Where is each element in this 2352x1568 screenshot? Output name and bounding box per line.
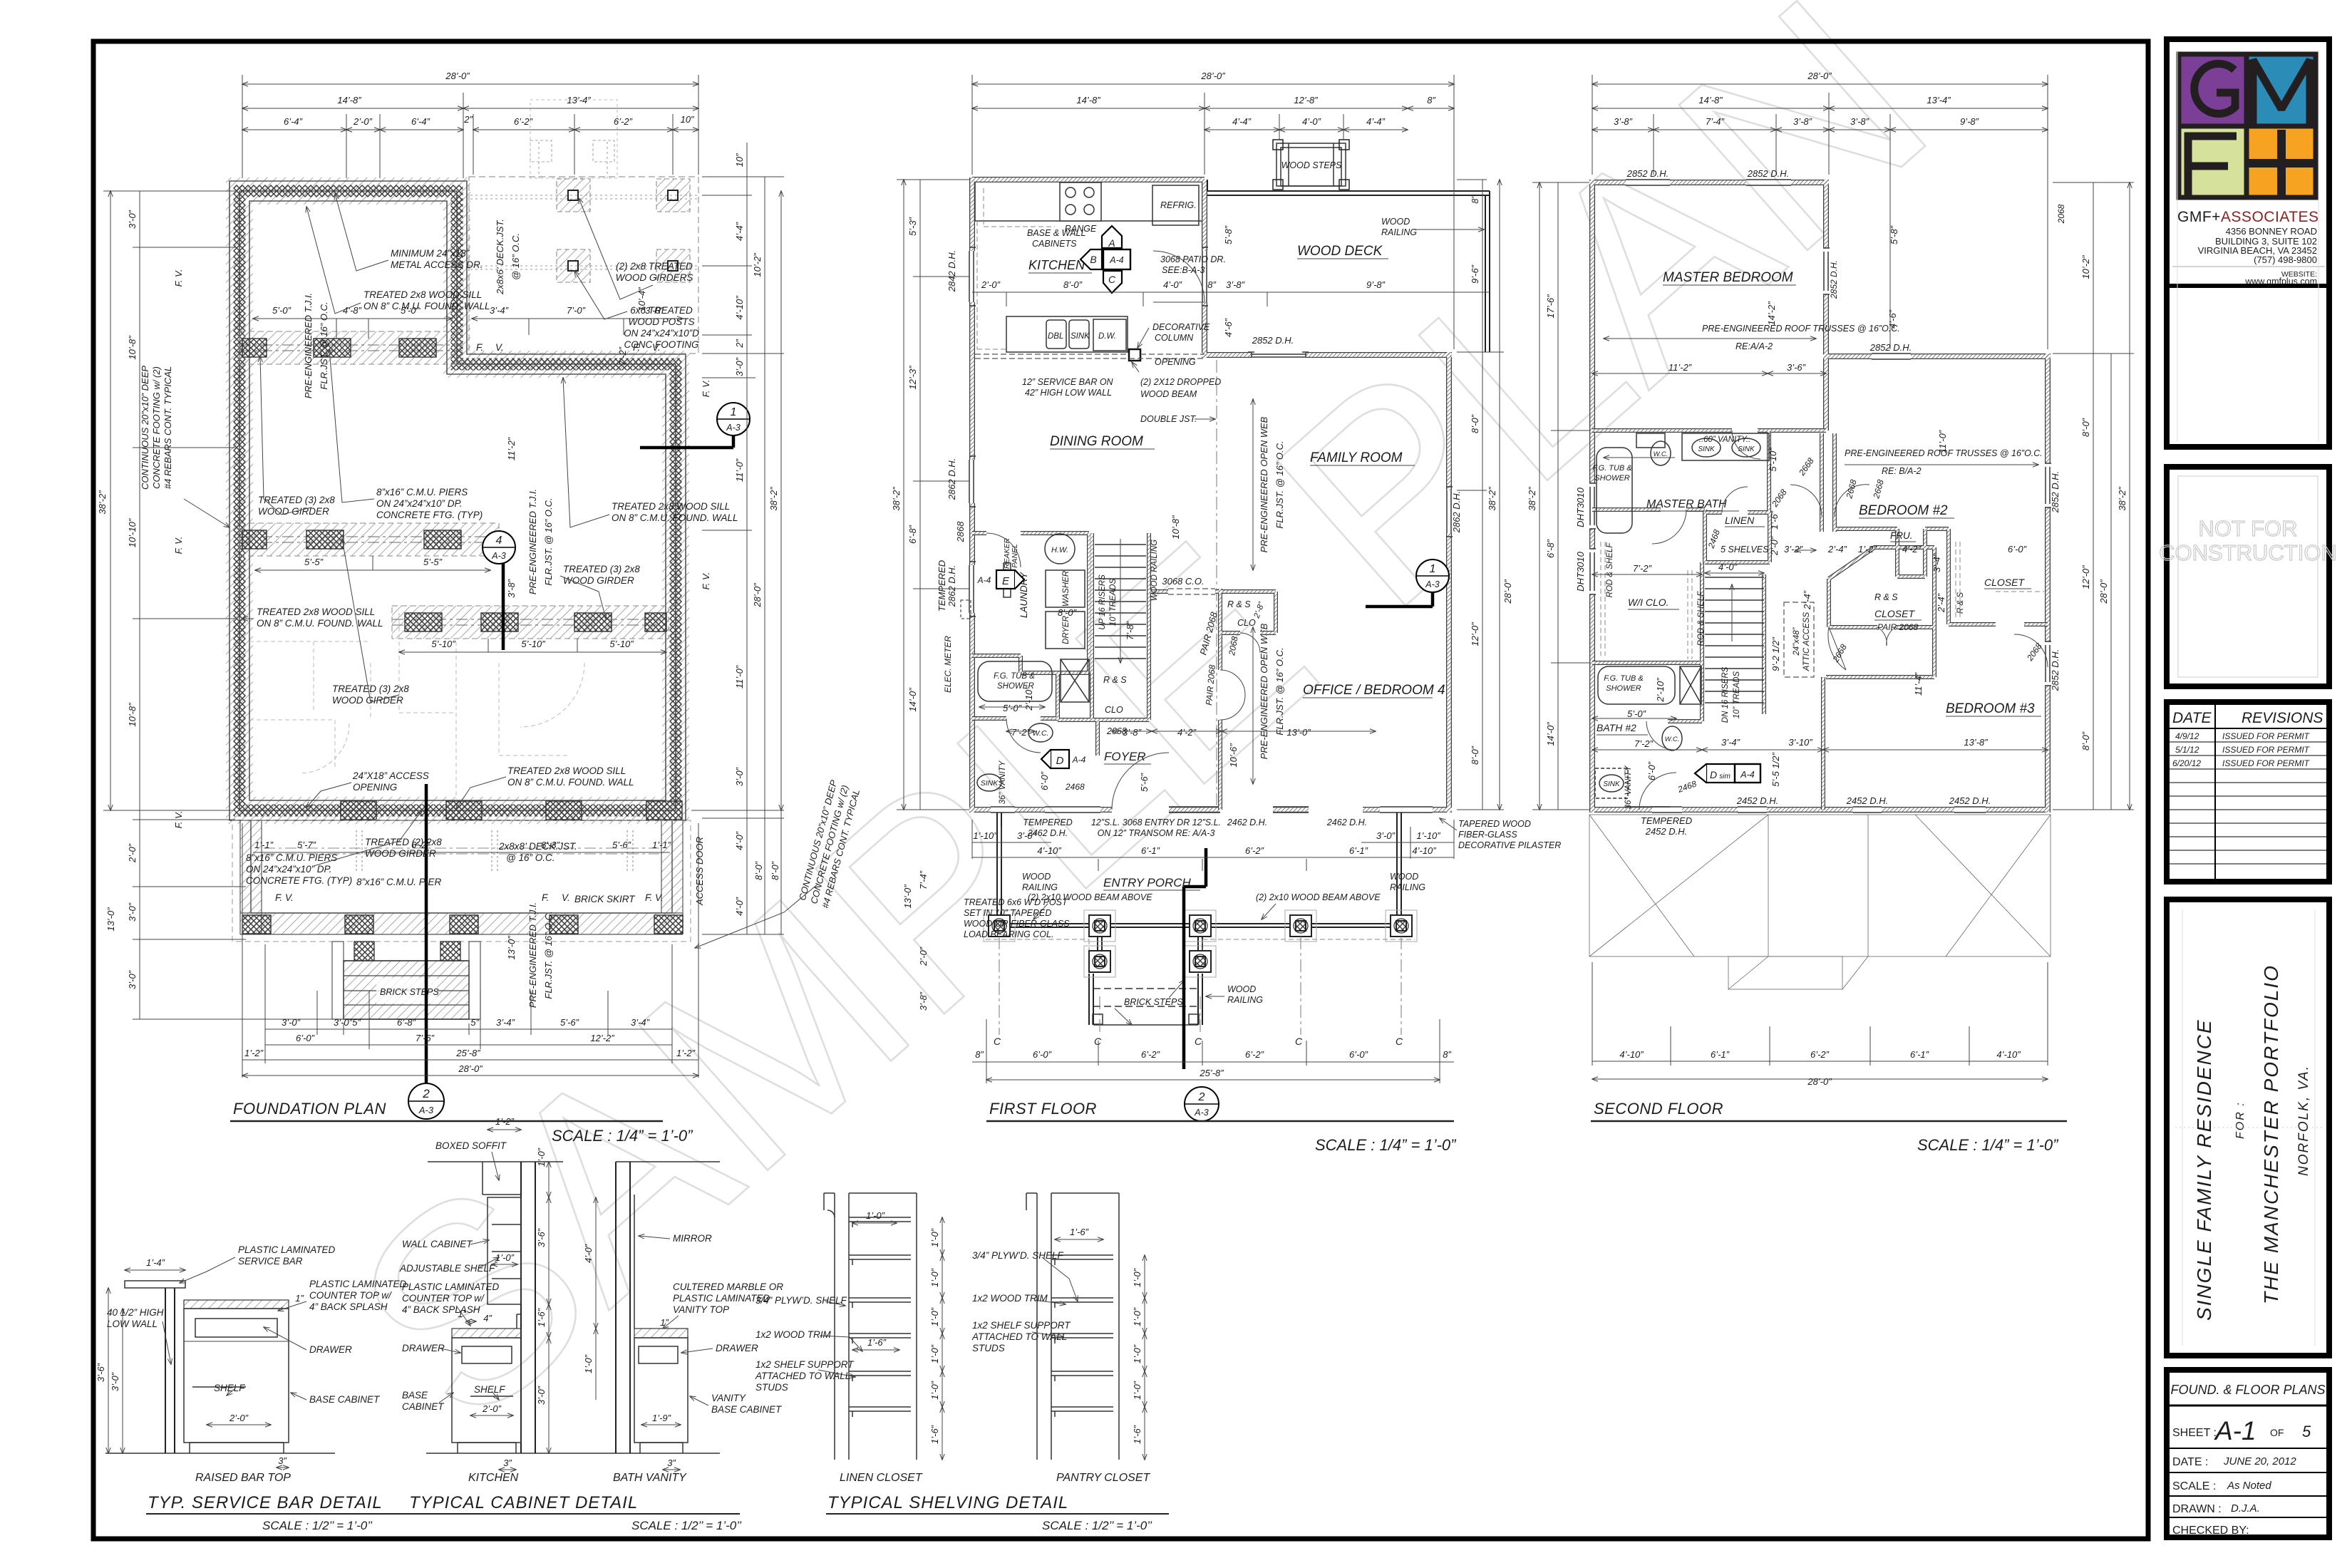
svg-text:A-4: A-4 [1740,770,1755,780]
svg-text:ON 8” C.M.U. FOUND. WALL: ON 8” C.M.U. FOUND. WALL [507,777,634,788]
svg-text:40 1/2” HIGH: 40 1/2” HIGH [107,1307,164,1318]
svg-text:2842 D.H.: 2842 D.H. [947,250,957,293]
svg-text:8’-0”: 8’-0” [1470,414,1480,433]
door arcs second floor [1639,430,2048,810]
svg-text:MINIMUM 24”x18”: MINIMUM 24”x18” [391,248,470,259]
svg-text:COUNTER TOP w/: COUNTER TOP w/ [402,1293,485,1304]
svg-text:4’-4”: 4’-4” [1232,116,1252,127]
svg-text:#4 REBARS CONT. TYPICAL: #4 REBARS CONT. TYPICAL [163,366,173,489]
svg-text:OPENING: OPENING [353,782,397,793]
porch brick skirt dashes [232,820,691,942]
svg-text:1x2 SHELF SUPPORT: 1x2 SHELF SUPPORT [972,1320,1071,1331]
svg-text:DBL: DBL [1048,332,1063,341]
svg-text:2068: 2068 [2056,204,2066,224]
girder band A [239,331,462,364]
top wall kitchen [972,177,1205,181]
svg-text:2452 D.H.: 2452 D.H. [1949,795,1991,806]
svg-text:STUDS: STUDS [972,1343,1005,1353]
svg-text:ISSUED FOR PERMIT: ISSUED FOR PERMIT [2222,731,2311,741]
svg-text:4’-0”: 4’-0” [1163,279,1182,290]
svg-text:10” TREADS: 10” TREADS [1733,671,1741,718]
svg-text:SCALE : 1/2’’ = 1’-0’’: SCALE : 1/2’’ = 1’-0’’ [631,1519,741,1532]
svg-text:BATH VANITY: BATH VANITY [613,1472,687,1484]
svg-text:1’-4”: 1’-4” [146,1257,165,1268]
svg-text:BRICK SKIRT: BRICK SKIRT [574,894,636,904]
svg-text:9’-8”: 9’-8” [1960,116,1979,127]
svg-text:1’-1”: 1’-1” [652,840,671,850]
svg-text:12’-3”: 12’-3” [907,366,918,390]
svg-text:3’-0”: 3’-0” [110,1372,120,1391]
svg-text:@ 16” O.C.: @ 16” O.C. [510,233,521,280]
svg-text:10’-8”: 10’-8” [127,703,138,727]
svg-text:6’-2”: 6’-2” [1810,1049,1830,1060]
interior walls [1592,430,2048,810]
svg-text:FRU.: FRU. [1890,530,1913,541]
svg-text:4”: 4” [483,1313,492,1324]
svg-text:36” VANITY: 36” VANITY [999,760,1007,804]
svg-text:ON 24”x24”x10”D: ON 24”x24”x10”D [624,328,699,339]
svg-text:C: C [994,1036,1001,1047]
door diagonal labels [1706,204,2066,664]
cabinet detail : bath vanity [616,1162,720,1453]
family room north wall w/ window gap [1202,352,1452,358]
svg-text:7’-4”: 7’-4” [1706,116,1725,127]
svg-text:4’-0”: 4’-0” [583,1244,594,1263]
bath 2 fixtures [1595,666,1701,798]
svg-text:14’-2”: 14’-2” [1766,301,1777,326]
laundry west partial + door [972,532,986,535]
svg-text:5’-10”: 5’-10” [431,639,455,649]
svg-text:2’-0”: 2’-0” [482,1403,502,1414]
svg-text:PRE-ENGINEERED T.J.I.: PRE-ENGINEERED T.J.I. [527,489,538,594]
foyer door arcs [1112,753,1169,810]
svg-text:4’-6”: 4’-6” [1223,318,1234,337]
svg-text:CONCRETE FTG. (TYP): CONCRETE FTG. (TYP) [376,510,483,520]
svg-text:2862 D.H.: 2862 D.H. [947,565,957,608]
svg-text:3’-8”: 3’-8” [918,991,929,1011]
second floor interior dims [1627,225,2027,787]
exterior walls [1589,180,2051,813]
svg-text:3’-4”: 3’-4” [1721,737,1740,748]
svg-text:FIRST FLOOR: FIRST FLOOR [989,1100,1097,1118]
svg-text:SEE:B-A-3: SEE:B-A-3 [1162,265,1205,275]
svg-text:FOUNDATION PLAN: FOUNDATION PLAN [233,1100,386,1118]
svg-text:4’-10”: 4’-10” [1412,845,1436,856]
laundry west partial + door [972,532,986,535]
svg-text:BEDROOM #3: BEDROOM #3 [1946,701,2035,716]
svg-text:3’-0”: 3’-0” [127,210,138,229]
svg-text:F. V.: F. V. [173,537,184,555]
svg-text:ACCESS DOOR: ACCESS DOOR [694,837,705,906]
svg-text:8’-0”: 8’-0” [753,861,764,880]
svg-text:BRICK STEPS: BRICK STEPS [380,987,439,997]
porch posts [989,915,1412,972]
deck pier footings [557,179,690,282]
svg-text:3’-8”: 3’-8” [1793,116,1812,127]
office door arcs [1240,633,1260,653]
svg-text:3068 C.O.: 3068 C.O. [1162,576,1204,587]
svg-text:ON 8” C.M.U. FOUND. WALL: ON 8” C.M.U. FOUND. WALL [363,301,490,311]
svg-text:6’-2”: 6’-2” [514,116,533,127]
svg-text:5’-0”: 5’-0” [272,305,292,316]
svg-text:3’-4”: 3’-4” [631,1017,650,1028]
svg-text:3’-10”: 3’-10” [1788,737,1812,748]
svg-text:6’-4”: 6’-4” [284,116,303,127]
svg-text:3’-2”: 3’-2” [1784,544,1803,555]
svg-text:A-3: A-3 [726,423,741,433]
svg-text:2’-4”: 2’-4” [1802,590,1812,610]
svg-text:WOOD STEPS: WOOD STEPS [1281,160,1342,170]
logo letter F [2185,133,2237,197]
second floor left dims [1532,182,1589,810]
D/A-4 marker [1041,750,1086,768]
svg-text:VANITY TOP: VANITY TOP [673,1304,729,1315]
svg-text:1x2 WOOD TRIM: 1x2 WOOD TRIM [972,1293,1048,1304]
foundation perimeter wall w/ footing hatch [239,191,676,810]
window sills thin [969,247,1453,813]
svg-text:www.gmfplus.com: www.gmfplus.com [2244,277,2317,287]
svg-text:1’-6”: 1’-6” [867,1337,887,1348]
svg-text:F.: F. [633,342,640,353]
svg-text:2852 D.H.: 2852 D.H. [1869,342,1912,353]
svg-text:1’-0”: 1’-0” [1132,1381,1143,1400]
svg-text:3’-4”: 3’-4” [490,305,509,316]
svg-text:6’-2”: 6’-2” [1245,1049,1264,1060]
svg-text:5’-6”: 5’-6” [560,1017,579,1028]
svg-text:1’-6”: 1’-6” [1769,510,1780,530]
svg-text:10”: 10” [734,153,745,167]
svg-text:28’-0”: 28’-0” [1200,71,1225,81]
post footing outlines [984,910,1417,977]
project name box (vertical text) [2167,899,2329,1356]
svg-text:13’-4”: 13’-4” [567,95,591,105]
kitchen island [1006,316,1128,352]
stair treads [1095,545,1146,659]
svg-text:ON 24”x24”x10” DP.: ON 24”x24”x10” DP. [376,498,463,509]
svg-text:F.G. TUB &: F.G. TUB & [1604,674,1643,683]
svg-text:PRE-ENGINEERED OPEN WEB: PRE-ENGINEERED OPEN WEB [1259,416,1269,552]
svg-text:6’-1”: 6’-1” [1141,845,1160,856]
svg-text:11’-4”: 11’-4” [1913,672,1924,696]
stair east wall [1147,533,1150,720]
svg-text:4’-4”: 4’-4” [734,222,745,241]
svg-text:D: D [1710,769,1717,780]
svg-text:DRAWER: DRAWER [716,1343,758,1353]
svg-text:KITCHEN: KITCHEN [1028,258,1085,272]
svg-text:OFFICE / BEDROOM 4: OFFICE / BEDROOM 4 [1303,683,1445,698]
svg-text:REFRIG.: REFRIG. [1160,200,1197,210]
svg-text:W.C.: W.C. [1654,450,1668,458]
svg-text:E: E [1002,575,1010,587]
svg-text:1’-0”: 1’-0” [866,1210,885,1221]
svg-text:8’-0”: 8’-0” [1063,279,1083,290]
svg-text:8”: 8” [975,1049,984,1060]
section cut 1/A-3 [640,403,750,448]
svg-text:24”X18” ACCESS: 24”X18” ACCESS [352,770,429,781]
svg-text:SHOWER: SHOWER [1606,684,1641,693]
wood steps top [1273,140,1349,190]
svg-text:2’-4”: 2’-4” [1936,593,1946,613]
svg-text:DOUBLE JST.: DOUBLE JST. [1140,414,1197,424]
svg-text:LOAD BEARING COL.: LOAD BEARING COL. [964,929,1053,939]
svg-text:13’-0”: 13’-0” [506,936,517,960]
svg-text:TREATED (2) 2x8: TREATED (2) 2x8 [365,837,442,847]
centerline dining/family [1216,360,1217,805]
hall/office north wall w/ cased opening [1149,589,1220,594]
svg-text:1”: 1” [295,1293,304,1304]
svg-text:3’-0”: 3’-0” [536,1386,547,1405]
svg-text:5’-5”: 5’-5” [304,557,324,567]
svg-text:7’-0”: 7’-0” [567,305,586,316]
svg-text:SINK: SINK [1603,780,1621,788]
svg-text:WOOD BEAM: WOOD BEAM [1140,389,1197,399]
svg-text:RAILING: RAILING [1390,882,1425,892]
stair east wall [1147,533,1150,720]
svg-text:8”: 8” [1470,195,1480,204]
svg-text:10’-6”: 10’-6” [1228,743,1239,768]
svg-text:BEDROOM #2: BEDROOM #2 [1859,503,1948,518]
svg-text:2x8x6’ DECK.JST.: 2x8x6’ DECK.JST. [495,219,505,295]
svg-text:4” BACK SPLASH: 4” BACK SPLASH [402,1304,480,1315]
powder closet walls [1058,673,1149,755]
svg-text:DATE :: DATE : [2172,1456,2208,1468]
svg-text:JUNE 20, 2012: JUNE 20, 2012 [2223,1455,2296,1468]
svg-text:ATTACHED TO WALL: ATTACHED TO WALL [755,1371,850,1381]
svg-text:DATE: DATE [2172,710,2212,726]
svg-text:TREATED 2x8 WOOD SILL: TREATED 2x8 WOOD SILL [507,765,626,776]
svg-text:9’-8”: 9’-8” [1366,279,1386,290]
svg-text:NOT FOR: NOT FOR [2199,516,2298,541]
svg-text:CULTERED MARBLE OR: CULTERED MARBLE OR [673,1281,783,1292]
svg-text:RAILING: RAILING [1227,995,1263,1005]
svg-text:PRE-ENGINEERED T.J.I.: PRE-ENGINEERED T.J.I. [527,902,538,1008]
office closet [1220,592,1276,633]
svg-text:12’-2”: 12’-2” [590,1033,614,1043]
svg-text:3”: 3” [667,1458,676,1468]
svg-text:4: 4 [496,535,502,547]
svg-text:1’-2”: 1’-2” [1858,544,1877,555]
svg-text:3’-0”: 3’-0” [734,357,745,376]
hall/office north wall w/ cased opening [1149,590,1220,593]
svg-text:13’-8”: 13’-8” [1964,737,1988,748]
svg-text:5’-8”: 5’-8” [1223,225,1234,244]
porch deck edge dashed [986,939,1415,972]
svg-text:ATTIC ACCESS: ATTIC ACCESS [1802,612,1811,671]
svg-text:A: A [1108,237,1115,249]
svg-text:3’-6”: 3’-6” [1787,362,1806,373]
svg-text:WOOD GIRDERS: WOOD GIRDERS [616,272,693,283]
svg-text:38’-2”: 38’-2” [2117,487,2127,511]
svg-text:10” TREADS: 10” TREADS [1109,578,1118,626]
foundation interior dims [253,319,683,852]
svg-text:6’-1”: 6’-1” [1711,1049,1730,1060]
svg-text:WOOD: WOOD [1381,217,1410,227]
svg-text:FLR.JST. @ 16” O.C.: FLR.JST. @ 16” O.C. [1274,647,1285,735]
svg-text:TYP. SERVICE BAR DETAIL: TYP. SERVICE BAR DETAIL [148,1493,383,1512]
svg-text:28’-0”: 28’-0” [752,583,763,608]
svg-text:WOOD OR FIBER-GLASS: WOOD OR FIBER-GLASS [964,919,1070,929]
svg-text:3’-0”: 3’-0” [734,767,745,786]
plan titles [230,1100,2067,1154]
svg-text:2”: 2” [734,339,745,349]
exterior walls [969,177,1452,813]
first floor interior dim row [972,292,1490,306]
left wall (with window gaps) [970,177,974,813]
svg-text:3’-0”: 3’-0” [127,970,138,989]
svg-text:1’-0”: 1’-0” [929,1381,940,1400]
svg-text:TREATED 2x8 WOOD SILL: TREATED 2x8 WOOD SILL [257,607,375,617]
svg-text:MIRROR: MIRROR [673,1233,712,1244]
svg-text:CLO: CLO [1105,705,1123,715]
svg-text:(2) 2X12 DROPPED: (2) 2X12 DROPPED [1140,377,1221,387]
svg-text:14’-8”: 14’-8” [1076,95,1100,105]
svg-text:4’-0”: 4’-0” [734,897,745,916]
svg-text:DECORATIVE PILASTER: DECORATIVE PILASTER [1458,840,1561,850]
svg-text:8’-0”: 8’-0” [1058,607,1077,618]
svg-text:FOUND. & FLOOR PLANS: FOUND. & FLOOR PLANS [2170,1383,2325,1397]
svg-text:13’-4”: 13’-4” [1927,95,1951,105]
office west wall w/ pair door gap [1218,589,1222,810]
svg-text:SERVICE BAR: SERVICE BAR [238,1256,303,1267]
svg-text:10’-2”: 10’-2” [752,253,763,277]
svg-text:36” VANITY: 36” VANITY [1624,765,1633,809]
svg-text:3’-8”: 3’-8” [506,579,517,598]
svg-text:TREATED 6x6 W’D POST: TREATED 6x6 W’D POST [964,897,1068,907]
svg-text:5”: 5” [470,1017,479,1028]
svg-text:D: D [1056,755,1064,767]
svg-text:8”x16” C.M.U. PIER: 8”x16” C.M.U. PIER [356,877,442,887]
svg-text:4356 BONNEY ROAD: 4356 BONNEY ROAD [2226,226,2317,237]
bottom wall w/ window+door gaps [969,808,1452,811]
wood deck railing [1207,180,1490,352]
svg-text:5 SHELVES: 5 SHELVES [1721,545,1769,555]
svg-text:12’-8”: 12’-8” [1294,95,1318,105]
bottom wall w/ window+door gaps [969,808,1452,811]
svg-text:6’-8”: 6’-8” [1545,539,1556,558]
svg-text:3’-0”: 3’-0” [282,1017,301,1028]
svg-text:WOOD: WOOD [1022,872,1051,882]
svg-text:7’-6”: 7’-6” [416,1033,435,1043]
svg-text:WOOD GIRDER: WOOD GIRDER [365,848,436,859]
stair west wall [1090,533,1093,720]
svg-text:2462 D.H.: 2462 D.H. [1326,817,1367,827]
svg-text:sim: sim [1719,773,1731,780]
svg-text:V.: V. [562,892,570,903]
svg-text:2’-0”: 2’-0” [1769,536,1780,556]
svg-text:10’-8”: 10’-8” [1170,515,1181,540]
svg-text:2’-10”: 2’-10” [1655,678,1666,703]
svg-text:DINING ROOM: DINING ROOM [1050,434,1143,449]
svg-text:PANEL: PANEL [1011,544,1019,568]
svg-text:A-4: A-4 [1109,255,1124,265]
shelving detail : pantry [1026,1193,1119,1460]
svg-text:1’-0”: 1’-0” [583,1354,594,1373]
svg-text:SHOWER: SHOWER [1594,474,1630,483]
svg-text:6’-2”: 6’-2” [1245,845,1264,856]
top wall kitchen [972,177,1205,181]
logo plus [2248,130,2316,197]
roof plan below [1589,815,2051,989]
svg-text:B: B [1090,254,1096,265]
svg-text:3’-0”: 3’-0” [1376,830,1396,841]
svg-text:5’-0”: 5’-0” [1003,703,1022,713]
office west wall w/ pair door gap [1219,589,1222,810]
sheet info box [2167,1370,2329,1537]
title box: logo/address [2167,39,2329,447]
svg-text:7’-2”: 7’-2” [1633,563,1652,574]
kitchen counters [975,182,1202,225]
svg-text:FLR.JST. @ 16” O.C.: FLR.JST. @ 16” O.C. [543,911,554,999]
svg-text:2452 D.H.: 2452 D.H. [1645,826,1688,837]
svg-text:4’-0”: 4’-0” [1718,562,1738,572]
brick steps [332,942,480,1019]
svg-text:2: 2 [1198,1091,1205,1103]
svg-text:A-3: A-3 [1425,579,1440,589]
office closet [1220,592,1276,633]
svg-text:3/4” PLYW’D. SHELF: 3/4” PLYW’D. SHELF [972,1250,1064,1261]
svg-text:TEMPERED: TEMPERED [937,560,947,612]
laundry north wall [1021,531,1089,535]
svg-text:14’-8”: 14’-8” [1698,95,1723,105]
bottom labels + dims [1641,795,1991,837]
svg-text:BASE & WALL: BASE & WALL [1027,228,1085,238]
svg-text:PLASTIC LAMINATED: PLASTIC LAMINATED [402,1281,500,1292]
svg-text:2852 D.H.: 2852 D.H. [1626,168,1669,179]
svg-text:F. V.: F. V. [701,380,711,398]
laundry west partial + door [972,531,986,535]
svg-text:R & S: R & S [1103,675,1127,685]
svg-text:VANITY: VANITY [711,1393,746,1403]
svg-text:3068 PATIO DR.: 3068 PATIO DR. [1160,254,1226,264]
svg-text:SCALE : 1/4” = 1’-0”: SCALE : 1/4” = 1’-0” [552,1127,693,1145]
powder closet walls [1058,673,1149,755]
svg-text:RE: B/A-2: RE: B/A-2 [1882,466,1922,476]
svg-text:C: C [1295,1036,1303,1047]
svg-text:DHT3010: DHT3010 [1575,551,1586,591]
svg-text:SCALE : 1/4” = 1’-0”: SCALE : 1/4” = 1’-0” [1315,1136,1457,1154]
svg-text:1: 1 [731,406,737,418]
svg-text:TREATED (3) 2x8: TREATED (3) 2x8 [563,564,640,574]
svg-text:6’-8”: 6’-8” [907,525,918,544]
right wall w/ window gap [1447,352,1450,813]
svg-text:1’-0”: 1’-0” [929,1228,940,1247]
shelving detail : linen [824,1193,917,1460]
section cut line 2/A-3 first floor [1184,848,1219,1121]
svg-text:KITCHEN: KITCHEN [468,1472,519,1484]
svg-text:ATTACHED TO WALL: ATTACHED TO WALL [971,1331,1067,1342]
svg-text:RE:A/A-2: RE:A/A-2 [1735,341,1773,351]
svg-text:WOOD: WOOD [1227,984,1256,994]
svg-text:28’-0”: 28’-0” [1502,579,1513,604]
svg-text:FLR.JST. @ 16” O.C.: FLR.JST. @ 16” O.C. [319,301,329,389]
svg-text:4/9/12: 4/9/12 [2175,731,2199,741]
svg-text:6’-0”: 6’-0” [1646,761,1657,780]
svg-text:PANTRY CLOSET: PANTRY CLOSET [1056,1472,1151,1484]
svg-text:(2) 2x10 WOOD BEAM ABOVE: (2) 2x10 WOOD BEAM ABOVE [1256,892,1381,902]
svg-text:SINK: SINK [1071,332,1090,341]
svg-text:V.: V. [652,342,661,353]
svg-text:3’-0”: 3’-0” [1017,830,1036,841]
porch girder dashed [264,830,659,873]
stair west wall [1090,533,1093,720]
svg-text:TEMPERED: TEMPERED [1023,817,1072,827]
svg-text:14’-0”: 14’-0” [1545,722,1556,746]
svg-text:PRE-ENGINEERED ROOF TRUSSES @: PRE-ENGINEERED ROOF TRUSSES @ 16”O.C. [1702,324,1900,334]
kitchen/deck wall with patio door gap [1202,180,1206,358]
svg-text:12” SERVICE BAR ON: 12” SERVICE BAR ON [1022,377,1114,387]
svg-text:3’-0”: 3’-0” [127,902,138,922]
svg-text:F. V.: F. V. [645,892,664,903]
